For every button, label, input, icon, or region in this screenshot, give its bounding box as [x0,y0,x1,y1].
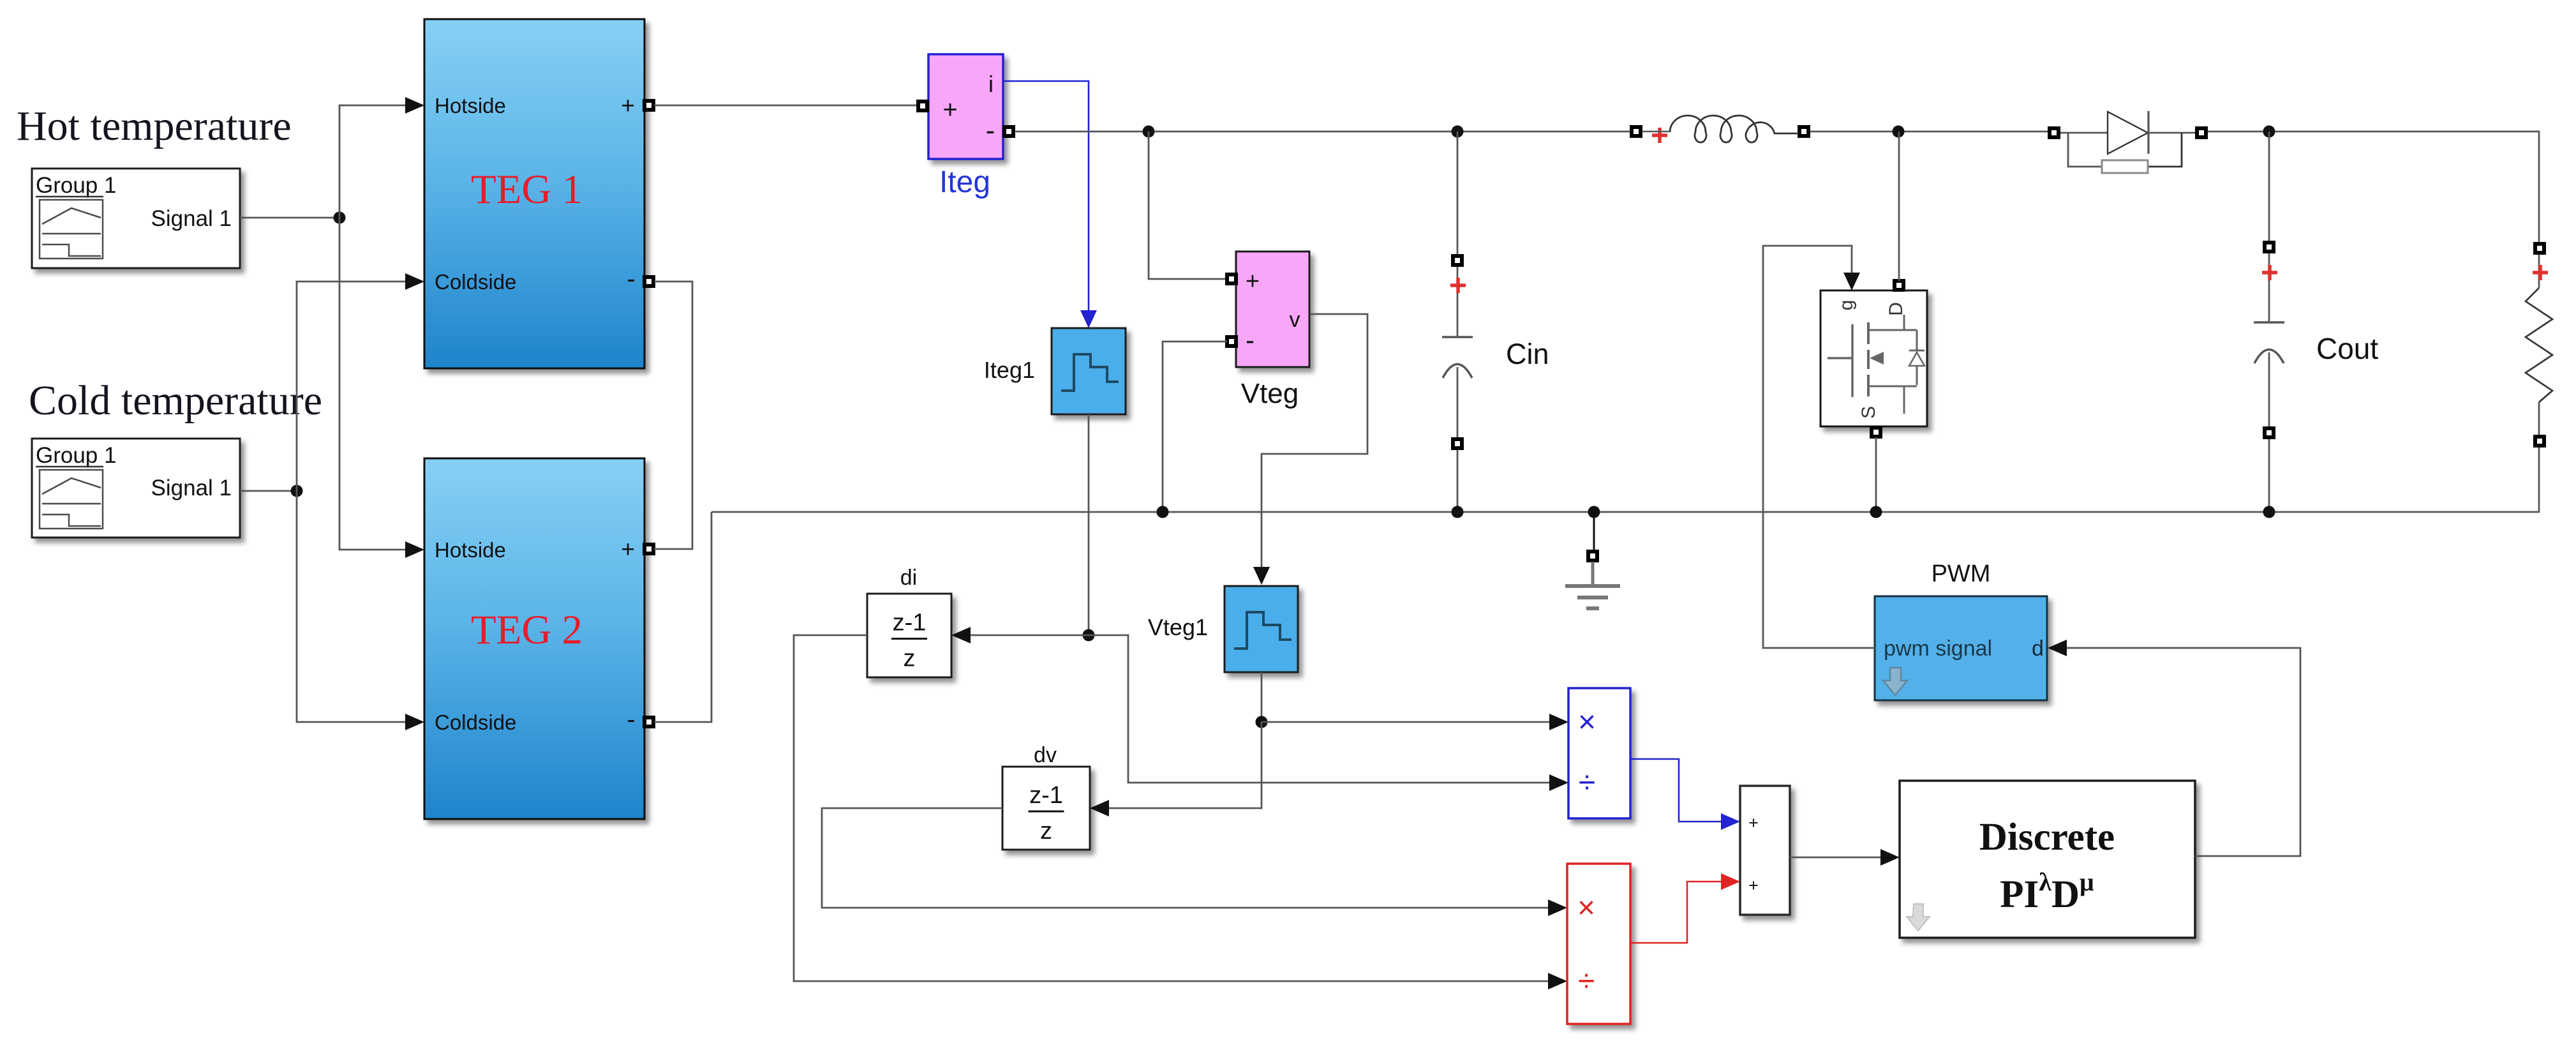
signal builder block "Hot temperature" (Group 1, Signal 1) [32,169,240,268]
svg-text:Cout: Cout [2316,332,2378,365]
label Iteg1 [984,357,1035,383]
node top rail / MOSFET drain [1893,126,1905,138]
capacitor Cin [1442,132,1473,512]
svg-text:Hotside: Hotside [435,94,506,117]
svg-text:D: D [1886,302,1907,316]
label Iteg [939,165,990,199]
discrete derivative block dv (z-1/z) [1002,767,1090,850]
product block (red) dV*dI and divide [1567,864,1630,1024]
svg-text:Group 1: Group 1 [36,173,116,198]
svg-text:pwm signal: pwm signal [1884,636,1992,661]
wire Discrete PID output to PWM d input [2048,640,2300,856]
node top rail / Cout [2263,126,2275,138]
ground symbol [1565,512,1620,608]
wire red product output to sum [1630,873,1740,943]
annotation "Hot temperature" [17,103,292,149]
wire Vteg - input to bottom rail [1163,342,1227,512]
wire node I to di input [951,627,1089,643]
node top rail / Cin [1452,126,1464,138]
top rail segment inductor to diode [1810,131,2048,133]
svg-text:d: d [2032,636,2044,661]
svg-text:Vteg: Vteg [1241,378,1299,409]
svg-text:Signal 1: Signal 1 [151,206,232,231]
sum block (+ +) [1740,786,1790,915]
wire MOSFET source to bottom rail [1875,437,1877,512]
top rail segment Iteg to inductor [1015,131,1630,133]
svg-text:+: + [621,536,635,562]
wire rail tap to Vteg + input [1149,132,1227,279]
svg-text:+: + [621,93,635,119]
svg-text:S: S [1858,406,1879,419]
label di [900,566,917,590]
svg-text:dv: dv [1034,743,1057,767]
svg-text:TEG 1: TEG 1 [471,167,583,213]
wire node C to TEG2 Coldside [297,491,424,730]
svg-text:×: × [1577,891,1595,925]
wire Vteg v output to Vteg1 scope [1253,314,1367,585]
node Cout / bottom rail [2263,506,2275,518]
wire node H to TEG1 Hotside [339,97,424,218]
node I junction [1083,629,1095,642]
node H junction [334,212,346,224]
scope block Vteg1 [1225,586,1298,672]
current sensor Iteg [918,54,1013,159]
wire blue product output to sum [1630,759,1740,830]
MOSFET block (g, D, S) [1820,281,1927,437]
diode D (with parallel RC snubber) [2050,111,2206,173]
svg-text:Discrete: Discrete [1979,816,2115,859]
wire node V to blue product multiply input [1262,714,1568,730]
label PWM [1932,560,1991,587]
svg-text:i: i [988,71,994,97]
node top rail / Vteg+ tap [1143,126,1155,138]
svg-text:z: z [904,645,916,672]
svg-text:v: v [1290,308,1300,332]
label Cout [2316,332,2378,365]
product block (blue) V*I and divide [1568,688,1630,818]
PWM generator block [1875,596,2047,700]
wire Iteg i output to Iteg1 scope (blue) [1003,81,1097,328]
top rail segment diode to load corner [2207,132,2539,243]
TEG 2 block [424,458,653,819]
wire MOSFET drain to top rail [1898,132,1900,281]
svg-text:×: × [1578,705,1596,739]
svg-text:Signal 1: Signal 1 [151,476,232,500]
inductor L (boost) [1632,116,1808,143]
wire node H to TEG2 Hotside [339,218,424,558]
wire Vteg1 output to node V [1261,672,1263,722]
label Vteg [1241,378,1299,409]
wire PWM output to MOSFET gate [1763,246,1875,648]
svg-text:TEG 2: TEG 2 [471,607,583,653]
node Vteg- / bottom rail [1157,506,1169,518]
svg-text:z-1: z-1 [893,610,927,636]
svg-text:Coldside: Coldside [435,710,516,734]
svg-text:÷: ÷ [1578,965,1595,998]
signal builder block "Cold temperature" (Group 1, Signal 1) [32,439,240,538]
svg-text:+: + [1246,268,1260,295]
capacitor Cout [2254,132,2284,512]
svg-text:+: + [1748,876,1759,895]
wire TEG2 - to bottom rail [654,512,711,722]
wire cold Signal 1 to node C [240,490,297,492]
svg-text:Hotside: Hotside [435,538,506,562]
label Vteg1 [1148,614,1208,640]
wire dv output to red product multiply input [822,808,1567,916]
node ground / bottom rail [1588,506,1600,518]
svg-text:z: z [1040,818,1052,845]
annotation "Cold temperature" [29,377,322,424]
svg-text:di: di [900,566,917,590]
node C junction [291,485,303,497]
controller block Discrete PI^lambda D^mu [1900,781,2195,938]
svg-text:g: g [1836,300,1857,311]
svg-text:Cin: Cin [1506,338,1549,370]
wire TEG1 - to TEG2 + [654,282,692,549]
wire node C to TEG1 Coldside [297,273,424,491]
wire TEG1 + to Iteg + input [654,105,919,107]
load resistor R [2526,243,2552,512]
svg-text:+: + [942,96,957,124]
wire Iteg1 output to node I [1088,414,1090,635]
svg-text:z-1: z-1 [1029,782,1063,809]
svg-text:Hot temperature: Hot temperature [17,103,292,149]
svg-text:Vteg1: Vteg1 [1148,614,1208,640]
voltage sensor Vteg [1227,252,1309,367]
node MOSFET source / bottom rail [1870,506,1882,518]
svg-text:-: - [1246,325,1254,355]
TEG 1 block [424,19,653,368]
svg-text:PWM: PWM [1932,560,1991,587]
node V junction [1256,716,1268,728]
bottom rail wire [711,511,2540,513]
wire node V to dv input [1090,722,1262,816]
wire di output to red product divide input [794,635,1567,989]
discrete derivative block di (z-1/z) [867,594,951,677]
svg-text:Coldside: Coldside [435,270,516,294]
wire node I to blue product divide input [1089,635,1568,791]
svg-text:Iteg1: Iteg1 [984,357,1035,383]
svg-text:-: - [627,265,635,293]
svg-text:÷: ÷ [1579,766,1595,800]
node Cin / bottom rail [1452,506,1464,518]
svg-text:Cold temperature: Cold temperature [29,377,322,424]
svg-text:Iteg: Iteg [939,165,990,199]
label dv [1034,743,1057,767]
wire sum output to Discrete PID [1790,849,1900,866]
svg-text:Group 1: Group 1 [36,443,116,468]
label Cin [1506,338,1549,370]
svg-text:-: - [986,115,995,146]
svg-text:-: - [627,705,635,733]
wire hot Signal 1 to node H [240,217,339,219]
scope block Iteg1 [1052,328,1126,414]
svg-text:+: + [1748,813,1759,832]
